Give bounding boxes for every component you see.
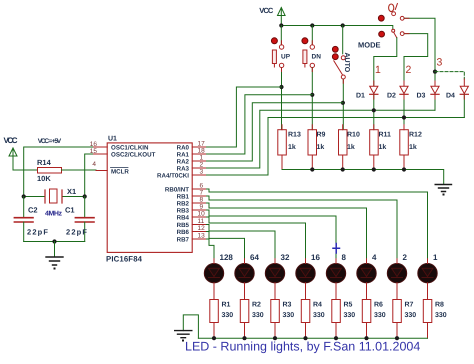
svg-text:3: 3 — [200, 169, 204, 176]
pin OSC1/CLKIN 16 — [90, 141, 149, 152]
wire cap bottom rail — [24, 241, 85, 243]
node junction cap rail — [52, 239, 56, 243]
svg-text:X1: X1 — [67, 187, 76, 196]
svg-text:1: 1 — [433, 253, 438, 262]
wire crystal row — [24, 196, 85, 198]
svg-text:4MHz: 4MHz — [45, 211, 63, 218]
node VCC (left) — [4, 136, 18, 156]
node junction rail R4 — [303, 336, 307, 340]
wire dashed to D4 — [435, 72, 464, 79]
svg-text:16: 16 — [90, 141, 98, 148]
LED D(128) — [204, 264, 223, 300]
svg-text:6: 6 — [200, 183, 204, 190]
LED D(8) — [326, 264, 345, 300]
svg-text:R7: R7 — [405, 302, 414, 309]
ground (LED rail) — [175, 331, 192, 342]
svg-text:DN: DN — [312, 54, 322, 61]
svg-text:R2: R2 — [252, 302, 261, 309]
svg-text:2: 2 — [403, 253, 408, 262]
svg-text:VCC = +5V: VCC = +5V — [38, 138, 62, 145]
node junction UP/RA0 — [279, 85, 283, 89]
resistor R11 — [370, 130, 391, 170]
svg-text:D3: D3 — [417, 93, 426, 100]
svg-text:RA1: RA1 — [177, 152, 190, 159]
node junction rail R2 — [242, 336, 246, 340]
node junction RA4/D2 — [402, 115, 406, 119]
svg-text:RA0: RA0 — [177, 145, 190, 152]
node junction rail R9 — [310, 167, 314, 171]
LED D(64) — [235, 264, 254, 300]
svg-text:C1: C1 — [65, 206, 75, 215]
svg-text:22pF: 22pF — [66, 228, 87, 237]
svg-text:MCLR: MCLR — [111, 169, 129, 176]
svg-text:LED - Running lights, by F.San: LED - Running lights, by F.San 11.01.200… — [185, 340, 420, 354]
wire RA1 bus — [207, 95, 313, 154]
svg-text:RA3: RA3 — [177, 166, 190, 173]
resistor R8 — [423, 300, 446, 339]
svg-text:1k: 1k — [288, 143, 296, 151]
wire RB1 to LED7 — [207, 196, 398, 263]
capacitor C2 — [14, 197, 48, 242]
node junction rail DN — [310, 23, 314, 27]
svg-text:RB6: RB6 — [177, 229, 190, 236]
wire MODE contact3 to D3 — [404, 18, 435, 86]
svg-text:10: 10 — [198, 211, 206, 218]
svg-text:RB1: RB1 — [177, 194, 190, 201]
svg-text:22pF: 22pF — [27, 228, 48, 237]
pin OSC2/CLKOUT 15 — [90, 148, 156, 159]
node junction rail UP — [279, 23, 283, 27]
svg-text:RB2: RB2 — [177, 201, 190, 208]
svg-text:64: 64 — [250, 253, 259, 262]
wire RA0 bus — [207, 87, 282, 147]
svg-text:AUTO: AUTO — [343, 53, 350, 73]
resistor R7 — [393, 300, 416, 339]
svg-text:8: 8 — [342, 253, 347, 262]
node junction rail R6 — [364, 336, 368, 340]
svg-text:R11: R11 — [379, 132, 392, 139]
wire RB2 to LED6 — [207, 203, 367, 263]
wire RB6 to LED2 — [207, 232, 245, 264]
wire RA4 bus — [207, 118, 465, 176]
svg-text:RB5: RB5 — [177, 222, 190, 229]
LED bit labels — [220, 253, 439, 262]
svg-text:OSC1/CLKIN: OSC1/CLKIN — [111, 145, 149, 152]
resistor R2 — [240, 300, 263, 339]
crystal X1 — [45, 187, 76, 218]
svg-text:RB7: RB7 — [177, 237, 190, 244]
svg-text:330: 330 — [283, 312, 295, 319]
node junction rail R11 — [372, 167, 376, 171]
svg-text:R12: R12 — [409, 132, 422, 139]
resistor R14 — [37, 158, 62, 183]
wire RA2 bus — [207, 103, 343, 161]
LED D(16) — [296, 264, 315, 300]
svg-text:330: 330 — [435, 312, 447, 319]
resistor R13 — [278, 130, 301, 170]
wire R14 to MCLR — [62, 169, 97, 171]
resistor R9 — [308, 130, 326, 170]
resistor R12 — [400, 130, 422, 170]
ground (crystal) — [46, 242, 63, 270]
resistor R6 — [362, 300, 385, 339]
svg-text:2: 2 — [406, 64, 412, 76]
svg-text:RB0/INT: RB0/INT — [165, 187, 189, 194]
wire OSC1 net — [24, 147, 96, 197]
svg-text:OSC2/CLKOUT: OSC2/CLKOUT — [111, 152, 156, 159]
svg-text:11: 11 — [198, 218, 205, 225]
button UP — [271, 26, 290, 130]
probe marker (blue cross) — [333, 244, 340, 254]
wire RB7 to LED1 — [207, 239, 215, 263]
resistor R4 — [301, 300, 324, 339]
diode D4 — [446, 86, 468, 117]
LED D(1) — [418, 264, 437, 300]
svg-text:330: 330 — [344, 312, 356, 319]
svg-text:3: 3 — [437, 57, 443, 69]
svg-text:330: 330 — [252, 312, 264, 319]
node junction rail R12 — [402, 167, 406, 171]
resistor R3 — [271, 300, 294, 339]
node junction left crystal — [22, 194, 26, 198]
node junction 3 / D4 branch — [433, 70, 437, 74]
svg-text:330: 330 — [374, 312, 386, 319]
node junction AUTO/RA2 — [341, 101, 345, 105]
LED D(32) — [265, 264, 284, 300]
svg-text:R8: R8 — [435, 302, 444, 309]
svg-text:1k: 1k — [347, 143, 355, 151]
svg-text:U1: U1 — [108, 136, 117, 143]
svg-text:R4: R4 — [313, 302, 322, 309]
wire RB4 to LED4 — [207, 217, 306, 263]
diode D1 — [356, 86, 378, 130]
wire VCC to R14 — [13, 156, 37, 170]
node junction DN/RA1 — [310, 93, 314, 97]
resistor R5 — [332, 300, 355, 339]
svg-text:RA4/T0CKI: RA4/T0CKI — [157, 173, 189, 180]
svg-text:4: 4 — [372, 253, 377, 262]
svg-text:R13: R13 — [288, 132, 301, 139]
svg-text:1: 1 — [200, 155, 204, 162]
pin MCLR 4 — [92, 161, 129, 176]
svg-text:1: 1 — [375, 64, 381, 76]
op-amp U1 PIC16F84 box — [106, 136, 192, 264]
node junction rail R3 — [273, 336, 277, 340]
svg-text:1k: 1k — [409, 143, 417, 151]
svg-text:C2: C2 — [28, 206, 38, 215]
ground (pullup rail) — [435, 185, 451, 196]
capacitor C1 — [65, 197, 94, 242]
button DN — [302, 26, 321, 130]
node junction rail R1 — [212, 336, 216, 340]
svg-text:RB3: RB3 — [177, 208, 190, 215]
svg-text:10K: 10K — [37, 174, 51, 183]
diode D3 — [417, 86, 440, 110]
pins RB0-RB7 right — [165, 183, 207, 244]
svg-text:330: 330 — [313, 312, 325, 319]
switch AUTO — [332, 26, 350, 130]
wire MODE contact2 to D2 — [404, 34, 428, 86]
wire RB0 to LED8 — [207, 189, 428, 263]
svg-text:R6: R6 — [374, 302, 383, 309]
svg-text:VCC: VCC — [259, 6, 274, 15]
node junction rail R5 — [334, 336, 338, 340]
svg-text:330: 330 — [222, 312, 234, 319]
svg-text:15: 15 — [90, 148, 98, 155]
resistor R10 — [339, 130, 360, 170]
svg-text:7: 7 — [200, 190, 204, 197]
pins RA0-RA4 right — [157, 141, 206, 180]
wire pullup rail — [282, 170, 444, 184]
svg-text:D4: D4 — [446, 93, 455, 100]
svg-text:D2: D2 — [387, 93, 396, 100]
svg-text:MODE: MODE — [358, 41, 381, 50]
svg-text:RA2: RA2 — [177, 159, 190, 166]
svg-text:2: 2 — [200, 162, 204, 169]
svg-text:8: 8 — [200, 197, 204, 204]
svg-text:D1: D1 — [356, 93, 365, 100]
wire rail to ground — [183, 315, 198, 338]
svg-text:R3: R3 — [283, 302, 292, 309]
node junction rail R10 — [341, 167, 345, 171]
node junction rail R7 — [395, 336, 399, 340]
wire OSC2 net — [85, 154, 96, 197]
diode D2 — [387, 86, 408, 130]
resistor R1 — [210, 300, 233, 339]
svg-text:9: 9 — [200, 204, 204, 211]
wire RA3 bus — [207, 110, 436, 168]
svg-text:1k: 1k — [379, 143, 387, 151]
svg-text:16: 16 — [311, 253, 320, 262]
svg-text:1k: 1k — [317, 143, 325, 151]
node junction rail AUTO — [341, 23, 345, 27]
node junction right crystal — [83, 194, 87, 198]
node junction RA3/D1 — [372, 108, 376, 112]
svg-text:13: 13 — [198, 233, 206, 240]
svg-text:RB4: RB4 — [177, 215, 190, 222]
svg-text:R10: R10 — [347, 132, 360, 139]
svg-text:330: 330 — [405, 312, 417, 319]
svg-text:UP: UP — [281, 54, 291, 61]
svg-text:PIC16F84: PIC16F84 — [106, 255, 143, 264]
svg-text:18: 18 — [198, 148, 206, 155]
svg-text:R1: R1 — [222, 302, 231, 309]
switch MODE — [358, 4, 404, 50]
svg-text:17: 17 — [198, 141, 206, 148]
LED D(2) — [387, 264, 406, 300]
svg-text:R5: R5 — [344, 302, 353, 309]
svg-text:R9: R9 — [317, 132, 326, 139]
node VCC (top) — [259, 6, 285, 16]
wire MODE arm to D1 — [374, 38, 397, 86]
svg-text:128: 128 — [220, 253, 234, 262]
svg-text:4: 4 — [92, 161, 96, 168]
component pin stubs — [214, 41, 464, 264]
wire RB3 to LED5 — [207, 210, 337, 263]
svg-text:VCC: VCC — [4, 136, 18, 145]
LED D(4) — [357, 264, 376, 300]
svg-text:12: 12 — [198, 225, 206, 232]
wire RB5 to LED3 — [207, 225, 276, 264]
svg-text:32: 32 — [281, 253, 290, 262]
wire LED bottom rail — [198, 337, 427, 339]
svg-text:R14: R14 — [37, 158, 52, 167]
wire VCC top rail — [281, 16, 393, 30]
